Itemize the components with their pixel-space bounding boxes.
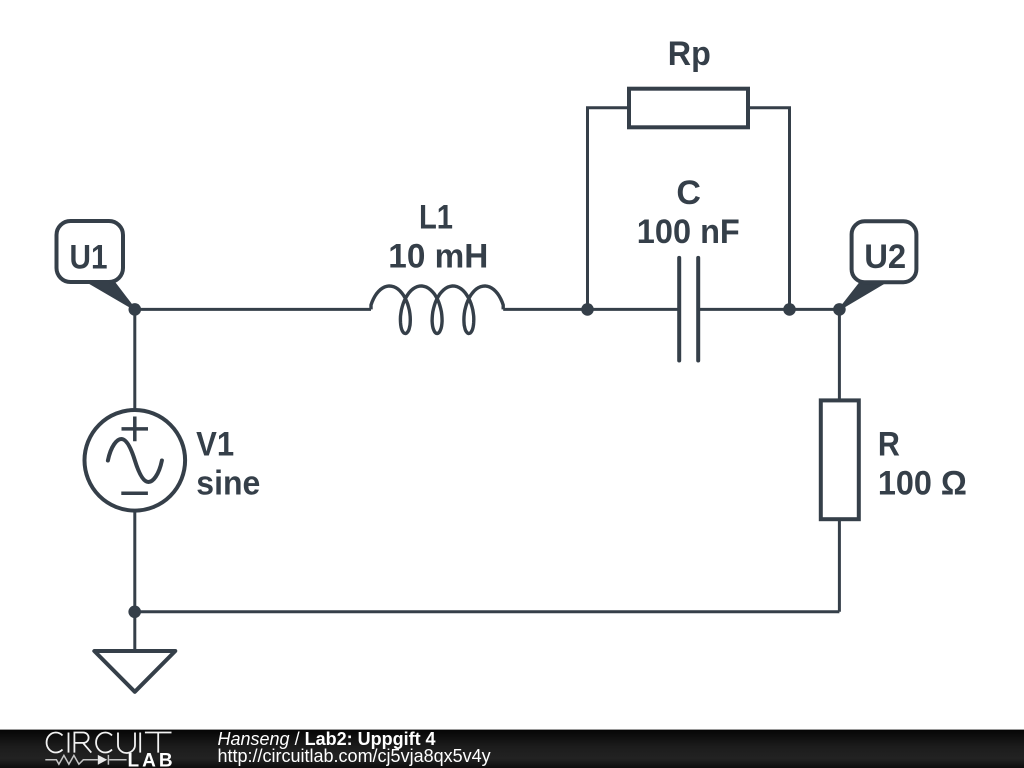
node U1 flag pointer — [87, 282, 135, 310]
wire: L1 to capacitor C left plate through left junction — [503, 308, 679, 311]
svg-text:R: R — [878, 426, 900, 464]
resistor Rp body — [629, 89, 748, 128]
junction dot node U2 — [833, 303, 846, 316]
junction dot node U1 — [129, 303, 142, 316]
svg-text:100 Ω: 100 Ω — [878, 465, 967, 503]
svg-text:L1: L1 — [419, 198, 453, 236]
svg-text:10 mH: 10 mH — [388, 237, 488, 275]
resistor R body — [821, 400, 859, 519]
CircuitLab logo resistor-diode squiggle — [45, 755, 126, 765]
capacitor C right plate — [696, 258, 700, 361]
svg-text:sine: sine — [196, 465, 260, 503]
inductor L1 coil — [371, 286, 503, 334]
CircuitLab logo CIRCUIT lettering — [47, 732, 172, 753]
node U2 flag pointer — [839, 282, 886, 310]
svg-text:U1: U1 — [70, 238, 108, 276]
wire: Rp branch left vertical — [588, 108, 630, 310]
voltage source V1 plus sign — [122, 417, 149, 442]
voltage source V1 sine symbol — [108, 439, 162, 482]
voltage source V1 circle — [85, 410, 186, 511]
node U2 flag box — [852, 221, 917, 282]
ground symbol — [94, 651, 175, 692]
capacitor C left plate — [677, 258, 681, 361]
wire: bottom node to ground — [133, 612, 136, 651]
wire: U2 node down to resistor R — [838, 309, 841, 400]
wire: U1 node down to V1 — [133, 309, 136, 410]
voltage source V1 minus sign — [121, 492, 148, 496]
junction dot Rp branch right — [783, 303, 796, 316]
svg-text:C: C — [676, 174, 701, 212]
wire bottom rail — [135, 610, 840, 613]
junction dot Rp branch left — [581, 303, 594, 316]
svg-text:100 nF: 100 nF — [637, 213, 740, 251]
wire: Rp branch right vertical — [748, 108, 790, 310]
svg-text:U2: U2 — [864, 238, 906, 276]
junction dot bottom left node — [128, 606, 141, 619]
wire: resistor R to bottom rail — [838, 519, 841, 612]
wire: capacitor C to U2 node — [698, 308, 839, 311]
svg-text:V1: V1 — [196, 426, 234, 464]
svg-text:http://circuitlab.com/cj5vja8q: http://circuitlab.com/cj5vja8qx5v4y — [218, 746, 491, 766]
node U1 flag box — [57, 221, 124, 282]
svg-text:LAB: LAB — [128, 751, 176, 768]
wire: V1 to bottom node — [133, 511, 136, 612]
wire top: U1 node to inductor L1 — [135, 308, 371, 311]
svg-text:Rp: Rp — [668, 35, 711, 73]
